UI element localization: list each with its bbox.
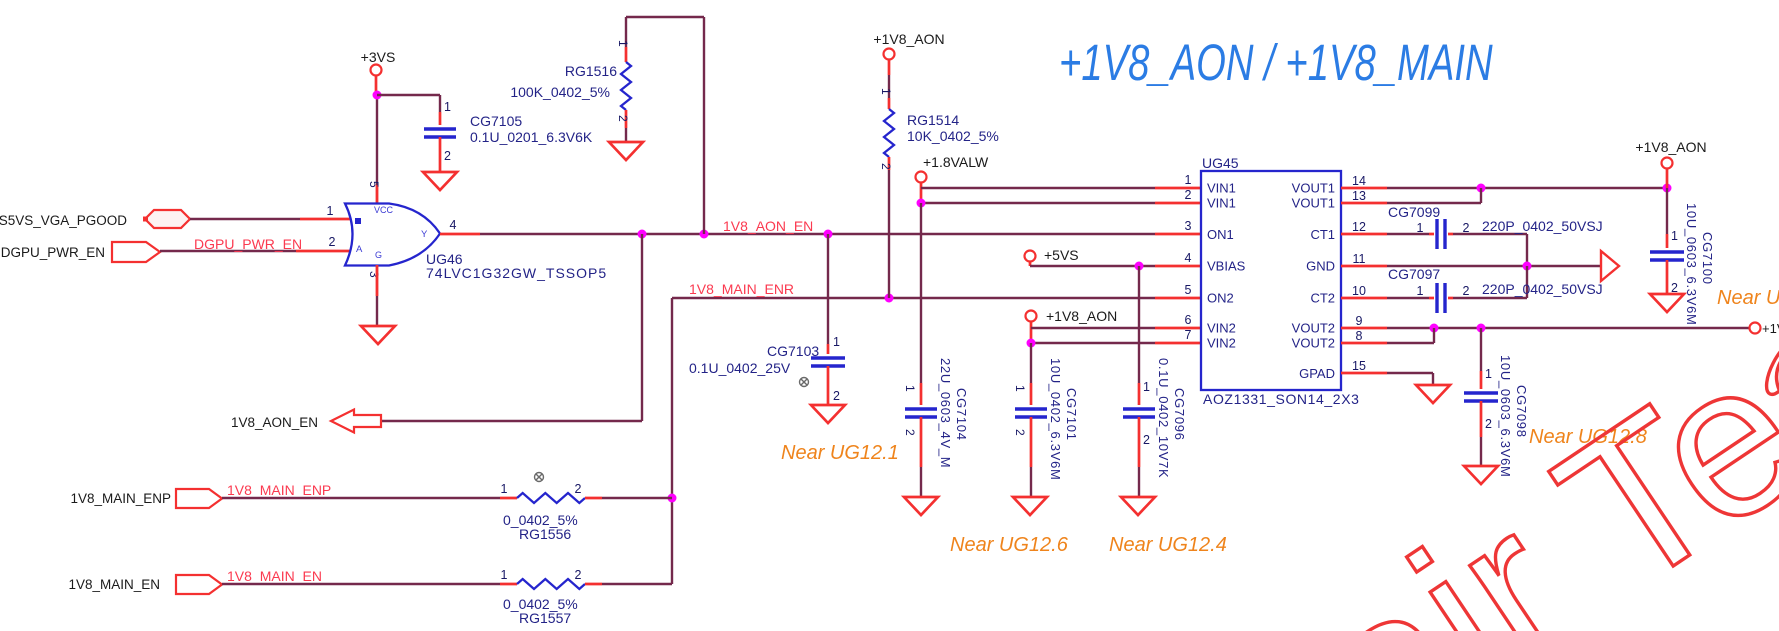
svg-text:2: 2 bbox=[1463, 284, 1470, 298]
junction VIN2 node bbox=[1027, 339, 1036, 348]
svg-text:1: 1 bbox=[879, 88, 893, 95]
svg-text:22U_0603_4V_M: 22U_0603_4V_M bbox=[938, 358, 953, 468]
wire RG1516 loop to net 1V8_AON_EN bbox=[626, 17, 704, 234]
svg-text:1: 1 bbox=[1417, 284, 1424, 298]
svg-text:4: 4 bbox=[1185, 251, 1192, 265]
junction node ENP join bbox=[668, 494, 677, 503]
svg-text:VOUT1: VOUT1 bbox=[1292, 181, 1335, 196]
wire PGOOD to OR input 1 bbox=[190, 218, 352, 220]
svg-text:1: 1 bbox=[501, 482, 508, 496]
IC left pin names bbox=[1207, 181, 1246, 351]
or-gate UG46 74LVC1G32GW bbox=[345, 204, 607, 282]
junction node AON_EN branch down bbox=[638, 230, 647, 239]
watermark red outline text bbox=[1274, 242, 1779, 631]
connector 1V8_AON_EN output arrow bbox=[231, 410, 381, 433]
svg-text:220P_0402_50VSJ: 220P_0402_50VSJ bbox=[1482, 281, 1603, 297]
svg-text:74LVC1G32GW_TSSOP5: 74LVC1G32GW_TSSOP5 bbox=[426, 265, 607, 281]
svg-text:10U_0402_6.3V6M: 10U_0402_6.3V6M bbox=[1048, 358, 1063, 481]
wire DGPU_PWR_EN to OR input 2 bbox=[160, 250, 352, 252]
svg-text:CG7100: CG7100 bbox=[1700, 232, 1715, 285]
svg-text:CG7104: CG7104 bbox=[954, 388, 969, 441]
ground CG7105 bbox=[423, 172, 457, 190]
svg-text:1: 1 bbox=[616, 40, 630, 47]
svg-text:1: 1 bbox=[833, 335, 840, 349]
svg-text:0.1U_0402_25V: 0.1U_0402_25V bbox=[689, 360, 791, 376]
pin number 1 OR input bbox=[327, 204, 334, 218]
svg-text:+1V8_AON: +1V8_AON bbox=[1635, 139, 1706, 155]
svg-text:+5VS: +5VS bbox=[1044, 247, 1079, 263]
power +1.8VALW bbox=[916, 154, 990, 183]
wire net 1V8_AON_EN main bbox=[440, 233, 1201, 236]
svg-text:1: 1 bbox=[903, 385, 917, 392]
ground CG7096 bbox=[1121, 497, 1155, 515]
svg-text:0.1U_0201_6.3V6K: 0.1U_0201_6.3V6K bbox=[470, 129, 593, 145]
connector 1V8_MAIN_EN bbox=[68, 575, 222, 594]
capacitor CG7097 220P bbox=[1341, 266, 1603, 313]
junction VBIAS cap node bbox=[1135, 262, 1144, 271]
svg-text:9: 9 bbox=[1356, 314, 1363, 328]
power +1V8_AON top bbox=[873, 31, 944, 60]
no-connect marker CG7103 bbox=[800, 378, 809, 387]
wire GND pin11 net bbox=[1341, 265, 1600, 268]
svg-text:10U_0603_6.3V6M: 10U_0603_6.3V6M bbox=[1684, 203, 1699, 326]
junction CT caps to GND bbox=[1523, 262, 1532, 271]
svg-text:1: 1 bbox=[1143, 380, 1150, 394]
svg-text:GND: GND bbox=[1306, 259, 1335, 274]
net label 1V8_MAIN_EN bbox=[227, 568, 322, 584]
capacitor CG7096 bbox=[1123, 266, 1187, 497]
svg-text:2: 2 bbox=[444, 149, 451, 163]
svg-text:1: 1 bbox=[1485, 367, 1492, 381]
no-connect marker RG1556 bbox=[535, 473, 544, 482]
svg-text:1: 1 bbox=[1185, 173, 1192, 187]
svg-text:1: 1 bbox=[1013, 385, 1027, 392]
svg-text:VCC: VCC bbox=[374, 205, 394, 215]
svg-text:7: 7 bbox=[1185, 328, 1192, 342]
svg-text:G: G bbox=[375, 250, 382, 260]
svg-text:1V8_MAIN_EN: 1V8_MAIN_EN bbox=[227, 568, 322, 584]
svg-text:13: 13 bbox=[1352, 189, 1366, 203]
svg-text:11: 11 bbox=[1353, 252, 1366, 266]
wire +1.8VALW to VIN1 pins bbox=[921, 183, 1201, 204]
svg-text:Near UG12.1: Near UG12.1 bbox=[781, 442, 899, 464]
note Near UG12.1 bbox=[781, 442, 899, 464]
svg-text:1: 1 bbox=[1417, 221, 1424, 235]
IC left pin numbers 1-7 bbox=[1185, 173, 1192, 342]
svg-text:+1.8VALW: +1.8VALW bbox=[923, 154, 989, 170]
svg-text:RG1514: RG1514 bbox=[907, 112, 959, 128]
svg-text:1: 1 bbox=[327, 204, 334, 218]
svg-text:2: 2 bbox=[1485, 417, 1492, 431]
power +1V8_MAIN off-page right bbox=[1750, 321, 1779, 336]
svg-text:CT1: CT1 bbox=[1310, 227, 1335, 242]
capacitor CG7098 bbox=[1464, 328, 1529, 478]
svg-text:2: 2 bbox=[903, 429, 917, 436]
svg-text:DGPU_PWR_EN: DGPU_PWR_EN bbox=[194, 236, 302, 252]
note Near UG12.8 bbox=[1529, 426, 1647, 448]
svg-text:air Tea: air Tea bbox=[1274, 242, 1779, 631]
junction RG1514 bottom bbox=[885, 294, 894, 303]
ground CG7101 bbox=[1013, 497, 1047, 515]
svg-text:RG1516: RG1516 bbox=[565, 63, 617, 79]
ground GPAD bbox=[1416, 385, 1450, 403]
svg-text:220P_0402_50VSJ: 220P_0402_50VSJ bbox=[1482, 218, 1603, 234]
title +1V8_AON / +1V8_MAIN bbox=[1059, 34, 1493, 92]
svg-text:DGPU_PWR_EN: DGPU_PWR_EN bbox=[1, 245, 105, 260]
svg-text:12: 12 bbox=[1352, 220, 1366, 234]
IC right pin names bbox=[1292, 181, 1335, 382]
net label 1V8_AON_EN bbox=[723, 218, 813, 234]
svg-text:CG7105: CG7105 bbox=[470, 113, 522, 129]
junction VOUT2 cap node bbox=[1477, 324, 1486, 333]
svg-text:VIN2: VIN2 bbox=[1207, 336, 1236, 351]
svg-text:1V8_AON_EN: 1V8_AON_EN bbox=[231, 415, 318, 430]
wire branch to 1V8_AON_EN connector bbox=[381, 234, 642, 421]
svg-text:AOZ1331_SON14_2X3: AOZ1331_SON14_2X3 bbox=[1203, 391, 1360, 407]
svg-text:VOUT1: VOUT1 bbox=[1292, 196, 1335, 211]
junction +3VS node bbox=[373, 91, 382, 100]
capacitor CG7099 220P bbox=[1341, 204, 1603, 266]
svg-text:14: 14 bbox=[1352, 174, 1366, 188]
svg-text:2: 2 bbox=[616, 115, 630, 122]
svg-text:A: A bbox=[356, 244, 363, 255]
svg-text:RG1556: RG1556 bbox=[519, 526, 571, 542]
capacitor CG7103 bbox=[689, 234, 845, 405]
net label 1V8_MAIN_ENR bbox=[689, 281, 794, 297]
svg-text:2: 2 bbox=[1185, 188, 1192, 202]
svg-text:1: 1 bbox=[444, 100, 451, 114]
ground CG7104 bbox=[904, 497, 938, 515]
svg-text:Near UG12.4: Near UG12.4 bbox=[1109, 534, 1227, 556]
junction VOUT1 jog bbox=[1477, 184, 1486, 193]
svg-text:CG7101: CG7101 bbox=[1064, 388, 1079, 441]
junction VOUT2 jog bbox=[1430, 324, 1439, 333]
connector S5VS_VGA_PGOOD bbox=[0, 210, 190, 228]
svg-text:ON2: ON2 bbox=[1207, 291, 1234, 306]
svg-text:2: 2 bbox=[1463, 221, 1470, 235]
wire net 1V8_MAIN_ENR bbox=[672, 297, 1201, 299]
wire +1V8_AON to VIN2 pins bbox=[1031, 322, 1201, 344]
svg-text:2: 2 bbox=[1013, 429, 1027, 436]
junction VOUT1 cap node bbox=[1663, 184, 1672, 193]
resistor RG1516 bbox=[510, 17, 631, 142]
svg-text:10K_0402_5%: 10K_0402_5% bbox=[907, 128, 999, 144]
svg-text:VBIAS: VBIAS bbox=[1207, 259, 1246, 274]
IC UG45 AOZ1331_SON14_2X3 bbox=[1201, 155, 1360, 407]
svg-text:2: 2 bbox=[833, 389, 840, 403]
svg-text:4: 4 bbox=[450, 218, 457, 232]
svg-text:1V8_MAIN_ENP: 1V8_MAIN_ENP bbox=[227, 482, 331, 498]
svg-text:S5VS_VGA_PGOOD: S5VS_VGA_PGOOD bbox=[0, 213, 127, 228]
capacitor CG7104 bbox=[903, 203, 969, 497]
svg-text:Y: Y bbox=[421, 229, 428, 240]
wire VOUT2 net bbox=[1341, 327, 1750, 330]
wire 1V8_MAIN_ENR down to resistors bbox=[671, 298, 673, 584]
svg-text:2: 2 bbox=[879, 163, 893, 170]
svg-text:UG45: UG45 bbox=[1202, 155, 1239, 171]
svg-text:CG7103: CG7103 bbox=[767, 343, 819, 359]
IC right pin numbers bbox=[1352, 174, 1366, 373]
wire OR gate GND pin bbox=[376, 265, 379, 326]
note Near UG12.6 bbox=[950, 534, 1069, 556]
junction node RG1516 loop bbox=[700, 230, 709, 239]
svg-text:Near UG12.6: Near UG12.6 bbox=[950, 534, 1069, 556]
svg-text:3: 3 bbox=[1185, 219, 1192, 233]
pin number 3 OR GND bbox=[367, 271, 381, 278]
svg-text:2: 2 bbox=[329, 235, 336, 249]
resistor RG1557 bbox=[222, 568, 672, 626]
note Near UG12.4 bbox=[1109, 534, 1227, 556]
svg-text:GPAD: GPAD bbox=[1299, 366, 1335, 381]
svg-text:0.1U_0402_10V7K: 0.1U_0402_10V7K bbox=[1156, 358, 1171, 478]
svg-text:10: 10 bbox=[1352, 284, 1366, 298]
connector DGPU_PWR_EN bbox=[1, 242, 160, 262]
svg-text:1V8_MAIN_ENR: 1V8_MAIN_ENR bbox=[689, 281, 794, 297]
pin number 2 OR input bbox=[329, 235, 336, 249]
svg-text:1V8_MAIN_EN: 1V8_MAIN_EN bbox=[68, 577, 160, 592]
svg-text:6: 6 bbox=[1185, 313, 1192, 327]
wire GPAD to ground bbox=[1341, 373, 1433, 385]
net label 1V8_MAIN_ENP bbox=[227, 482, 331, 498]
svg-text:8: 8 bbox=[1356, 329, 1363, 343]
svg-text:15: 15 bbox=[1352, 359, 1366, 373]
svg-text:2: 2 bbox=[575, 482, 582, 496]
svg-text:1V8_AON_EN: 1V8_AON_EN bbox=[723, 218, 813, 234]
wire VOUT1 net bbox=[1341, 187, 1667, 190]
junction node CG7103 branch bbox=[824, 230, 833, 239]
resistor RG1556 bbox=[222, 482, 672, 542]
gnd arrow right bbox=[1601, 251, 1619, 281]
net label DGPU_PWR_EN bbox=[194, 236, 302, 252]
svg-text:5: 5 bbox=[367, 181, 381, 188]
pin number 5 OR VCC bbox=[367, 181, 381, 188]
ground OR gate bbox=[361, 326, 395, 344]
svg-text:CT2: CT2 bbox=[1310, 291, 1335, 306]
svg-text:CG7097: CG7097 bbox=[1388, 266, 1440, 282]
svg-text:1V8_MAIN_ENP: 1V8_MAIN_ENP bbox=[70, 491, 171, 506]
note Near U clipped bbox=[1717, 287, 1779, 309]
ground RG1516 bbox=[609, 142, 643, 160]
svg-text:+3VS: +3VS bbox=[361, 49, 396, 65]
wire +3VS to CG7105 bbox=[377, 95, 440, 125]
wire +5VS to VBIAS bbox=[1030, 262, 1201, 267]
svg-text:+1V8_AON: +1V8_AON bbox=[873, 31, 944, 47]
svg-text:100K_0402_5%: 100K_0402_5% bbox=[510, 84, 610, 100]
capacitor CG7101 bbox=[1013, 343, 1079, 497]
wire CG7105 to ground bbox=[439, 137, 442, 172]
svg-text:VOUT2: VOUT2 bbox=[1292, 321, 1335, 336]
svg-text:VIN2: VIN2 bbox=[1207, 321, 1236, 336]
svg-text:+1V8_AON / +1V8_MAIN: +1V8_AON / +1V8_MAIN bbox=[1059, 34, 1493, 92]
svg-text:RG1557: RG1557 bbox=[519, 610, 571, 626]
svg-text:1: 1 bbox=[501, 568, 508, 582]
power +1V8_AON middle bbox=[1026, 308, 1118, 324]
ground CG7100 bbox=[1650, 294, 1684, 312]
connector 1V8_MAIN_ENP bbox=[70, 489, 222, 508]
svg-text:+1V8_AON: +1V8_AON bbox=[1046, 308, 1117, 324]
svg-text:CG7099: CG7099 bbox=[1388, 204, 1440, 220]
resistor R RG1514 bbox=[879, 60, 999, 299]
junction +1.8VALW node bbox=[917, 199, 926, 208]
power +1V8_AON right bbox=[1635, 139, 1706, 169]
power +5VS bbox=[1025, 247, 1079, 263]
svg-text:2: 2 bbox=[1143, 433, 1150, 447]
svg-text:1: 1 bbox=[1671, 229, 1678, 243]
svg-text:VOUT2: VOUT2 bbox=[1292, 336, 1335, 351]
svg-text:5: 5 bbox=[1185, 283, 1192, 297]
wire +3VS to OR gate VCC bbox=[376, 76, 377, 205]
svg-text:3: 3 bbox=[367, 271, 381, 278]
svg-text:VIN1: VIN1 bbox=[1207, 196, 1236, 211]
wire VOUT1 pin13 jog bbox=[1341, 188, 1481, 203]
pin number 4 OR output bbox=[450, 218, 457, 232]
capacitor CG7100 bbox=[1650, 169, 1715, 326]
svg-text:2: 2 bbox=[575, 568, 582, 582]
watermark partial letter top right bbox=[1760, 337, 1779, 399]
capacitor CG7105 bbox=[424, 100, 593, 163]
ground CG7103 bbox=[811, 405, 845, 423]
svg-text:CG7096: CG7096 bbox=[1172, 388, 1187, 441]
power +3VS bbox=[361, 49, 396, 76]
wire VOUT2 pin8 jog bbox=[1341, 328, 1434, 343]
svg-text:VIN1: VIN1 bbox=[1207, 181, 1236, 196]
svg-text:ON1: ON1 bbox=[1207, 227, 1234, 242]
ground CG7098 bbox=[1464, 466, 1498, 484]
